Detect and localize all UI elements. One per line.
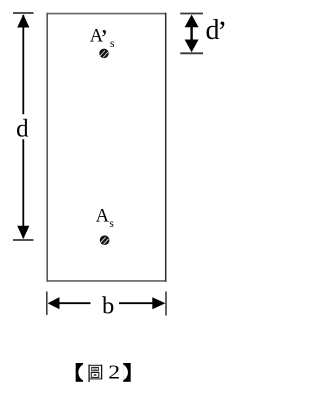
svg-text:d’: d’ [206,15,228,48]
svg-text:s: s [109,218,114,230]
svg-text:b: b [102,293,114,320]
svg-text:A: A [96,206,110,226]
svg-text:s: s [110,38,115,50]
svg-text:2: 2 [108,360,120,383]
svg-text:d: d [16,116,29,143]
svg-text:A’: A’ [90,25,109,52]
